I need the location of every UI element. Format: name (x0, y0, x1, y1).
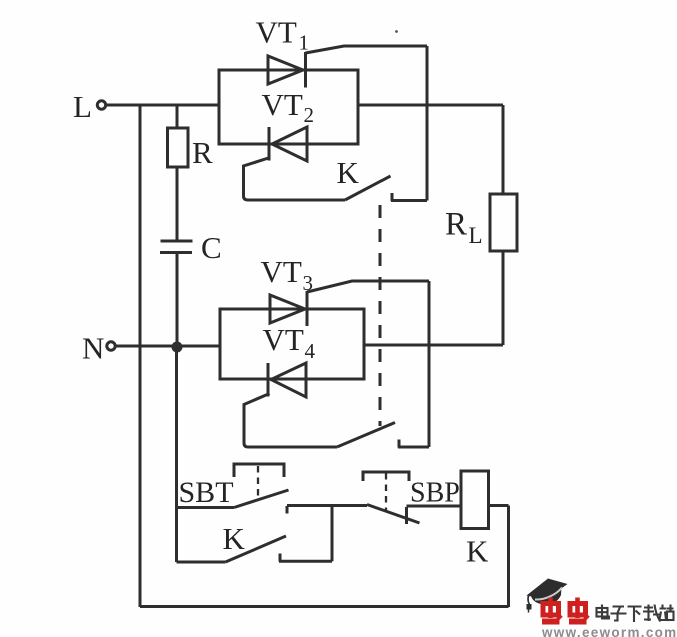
logo tassel (528, 596, 530, 605)
svg-text:VT: VT (256, 15, 297, 50)
char zi (611, 607, 627, 621)
wire K lower to bus (398, 446, 429, 449)
relay contact K lower fixed contact (398, 440, 401, 448)
svg-text:R: R (192, 135, 213, 170)
svg-text:K: K (466, 534, 489, 569)
svg-text:4: 4 (305, 339, 316, 363)
relay contact K upper blade (345, 176, 391, 200)
svg-text:VT: VT (261, 254, 302, 289)
thyristor VT4 (244, 363, 337, 447)
relay contact K holding fixed contact (279, 554, 282, 562)
wire VT box output to RL (358, 104, 503, 107)
wire RL top vertical (502, 105, 505, 194)
wire SBT output (287, 504, 367, 507)
svg-text:N: N (82, 331, 104, 366)
svg-text:www.eeworm.com: www.eeworm.com (541, 625, 677, 637)
wire L to R branch (176, 105, 179, 128)
wire C to N line (176, 253, 179, 348)
resistor R (168, 128, 189, 167)
svg-text:1: 1 (299, 31, 310, 55)
wire K holding row (177, 561, 226, 564)
mechanical link dashed K contacts (379, 205, 382, 426)
logo character chong 1 (542, 598, 562, 622)
svg-text:3: 3 (303, 271, 314, 295)
svg-text:K: K (337, 155, 360, 190)
pushbutton SBP link dashed (385, 473, 387, 510)
wire L horizontal (107, 104, 219, 107)
wire SBP output (407, 505, 462, 508)
pushbutton SBP blade NC (367, 505, 420, 524)
wire K holding output (279, 560, 332, 563)
pushbutton SBT actuator (234, 464, 284, 477)
char dian (597, 608, 608, 617)
wire loop box VT1/VT2 (219, 70, 358, 144)
pushbutton SBT link dashed (257, 466, 259, 497)
wire coil output (489, 504, 509, 507)
svg-text:C: C (201, 230, 222, 265)
relay contact K upper fixed contact (391, 193, 394, 201)
svg-text:R: R (445, 207, 467, 243)
wire N line to RL bottom (364, 344, 503, 347)
thyristor VT3 (270, 281, 429, 326)
logo cap highlight crescent (535, 588, 562, 600)
svg-text:K: K (223, 521, 246, 556)
wire left branch vertical to contacts (175, 347, 178, 562)
node junction dot N/C (172, 342, 183, 353)
terminal L (97, 101, 105, 109)
terminal N (107, 342, 115, 350)
pushbutton SBP actuator (363, 472, 409, 481)
svg-text:2: 2 (304, 103, 315, 127)
logo graduation cap board (527, 579, 568, 613)
wire loop box VT3/VT4 (220, 309, 364, 379)
relay contact K holding blade (226, 536, 287, 562)
wire bottom bus (140, 605, 509, 608)
wire gate bus right upper (426, 46, 429, 201)
wire N horizontal (116, 345, 221, 348)
svg-text:L: L (73, 89, 92, 124)
wire SBT row (177, 506, 235, 509)
logo text dianzi xiazaizhan (597, 605, 674, 623)
svg-text:SBP: SBP (410, 478, 460, 509)
wire K upper to bus (391, 199, 427, 202)
pushbutton SBT fixed contact (286, 506, 289, 514)
wire RL bottom vertical (502, 251, 505, 345)
capacitor C (160, 241, 193, 253)
svg-text:VT: VT (263, 322, 304, 357)
pushbutton SBP fixed contact (405, 507, 408, 524)
char xia (628, 607, 642, 623)
logo cap crown (531, 587, 562, 605)
char zhan (659, 605, 674, 621)
wire K holding up to SBT output (331, 506, 334, 562)
svg-text:L: L (469, 223, 483, 248)
wire gate bus right lower (428, 281, 431, 447)
speck artifact (395, 30, 398, 33)
svg-text:SBT: SBT (179, 476, 234, 509)
thyristor VT2 (244, 127, 346, 200)
wire R to C (176, 167, 179, 240)
relay contact K lower blade (337, 423, 395, 448)
logo character chong 2 (569, 598, 589, 622)
wire right drop to bottom bus (507, 506, 510, 608)
resistor RL (490, 194, 517, 251)
pushbutton SBT blade (234, 490, 289, 508)
svg-text:VT: VT (262, 87, 303, 122)
char zai (643, 605, 661, 622)
wire left bus vertical (139, 105, 142, 607)
thyristor VT1 (268, 46, 427, 88)
relay coil K (461, 471, 489, 529)
